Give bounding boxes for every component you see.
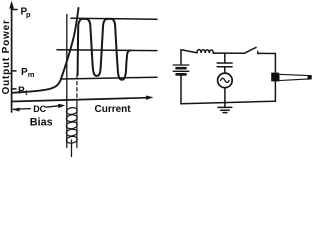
svg-text:DC: DC bbox=[33, 104, 46, 114]
svg-text:P: P bbox=[18, 85, 25, 96]
svg-text:Bias: Bias bbox=[30, 117, 53, 129]
svg-text:p: p bbox=[26, 10, 31, 19]
svg-text:Current: Current bbox=[95, 104, 132, 115]
svg-text:Output Power: Output Power bbox=[1, 19, 12, 94]
svg-text:m: m bbox=[28, 70, 35, 79]
